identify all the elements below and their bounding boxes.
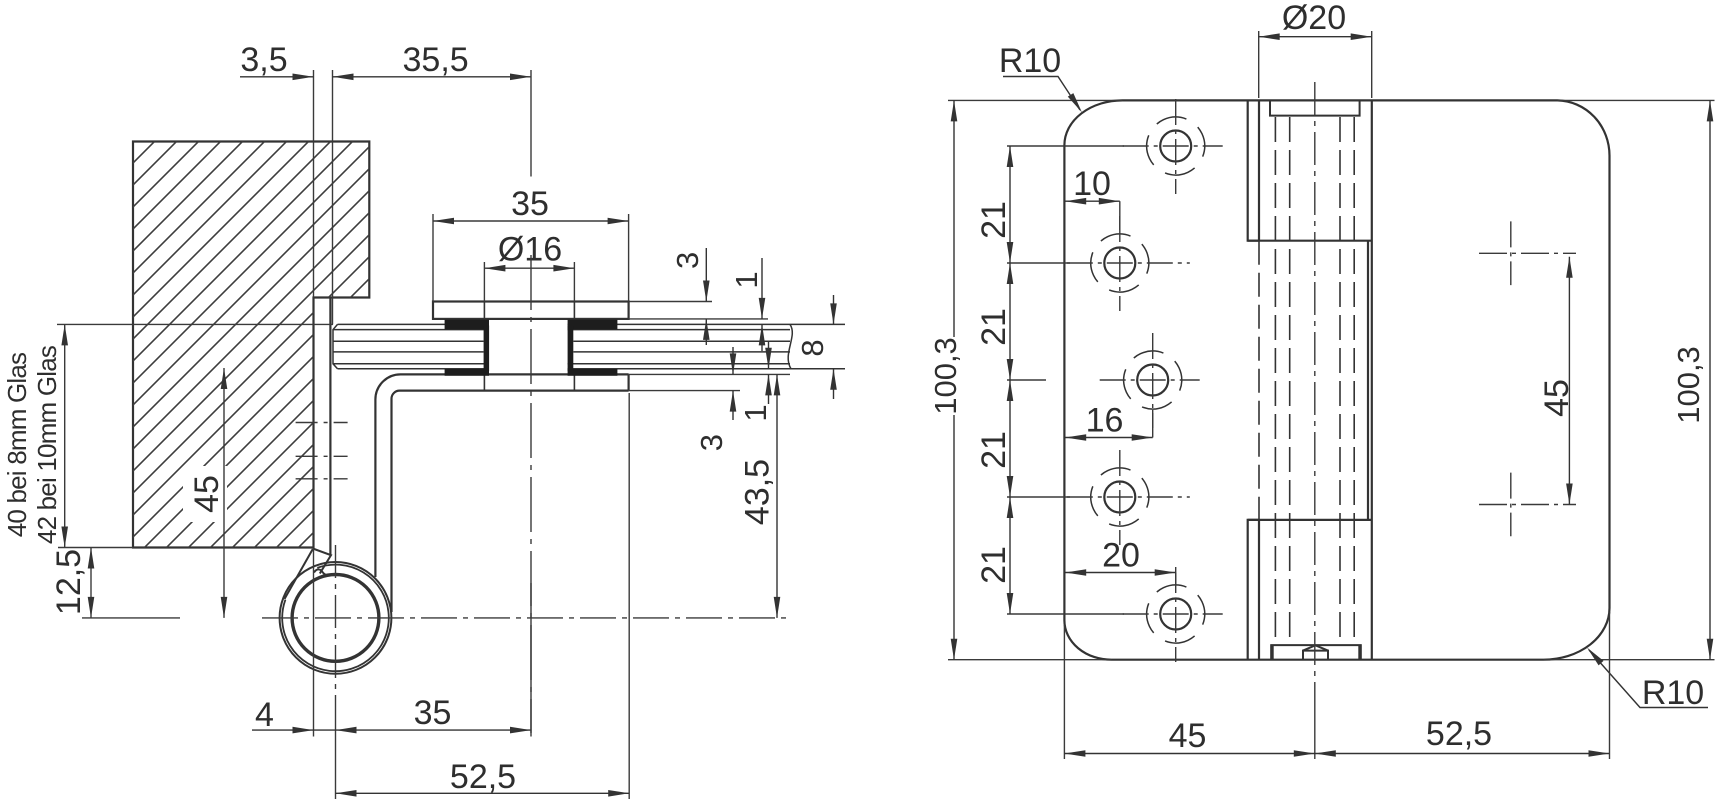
knuckle centre lines xyxy=(262,545,792,700)
dimension 10 xyxy=(1065,200,1120,202)
extension lines bottom left view xyxy=(314,393,630,799)
dimension 52,5 bottom xyxy=(1315,753,1610,755)
21 chain extension lines xyxy=(1007,146,1124,614)
dimension 3,5 xyxy=(240,76,531,78)
svg-text:1: 1 xyxy=(729,271,764,288)
dimension 35,5 xyxy=(333,74,354,81)
svg-text:45: 45 xyxy=(1169,717,1207,755)
svg-text:3: 3 xyxy=(694,434,729,451)
dimension Ø20 xyxy=(1259,31,1372,98)
hinge plate outline right view xyxy=(1064,100,1609,659)
leaf/barrel separation slots xyxy=(1248,100,1372,659)
dimension chain 21 x4 xyxy=(1009,146,1011,614)
svg-text:21: 21 xyxy=(975,308,1013,346)
pin hidden lines xyxy=(1275,117,1354,645)
hole edges top plate xyxy=(483,302,485,319)
dimension 45 right view xyxy=(1568,257,1570,505)
svg-text:45: 45 xyxy=(188,475,226,513)
glass panel lines xyxy=(333,324,845,368)
dimension 1 bottom xyxy=(768,341,770,369)
pin top xyxy=(1270,100,1360,115)
dimension 12,5 xyxy=(90,548,92,618)
svg-text:21: 21 xyxy=(975,431,1013,469)
svg-text:R10: R10 xyxy=(999,42,1061,80)
screw hole 2 xyxy=(1067,216,1190,311)
dimension 3 bottom xyxy=(732,347,734,374)
svg-text:12,5: 12,5 xyxy=(50,549,88,615)
svg-text:42 bei 10mm Glas: 42 bei 10mm Glas xyxy=(32,345,62,544)
barrel hidden edge xyxy=(1258,241,1260,520)
svg-text:100,3: 100,3 xyxy=(1671,346,1706,424)
thin extensions of plate edges xyxy=(948,100,1715,659)
svg-text:4: 4 xyxy=(255,696,274,734)
dimension 4 xyxy=(252,729,336,731)
dimension 43,5 xyxy=(776,374,778,618)
dimension 1 top xyxy=(761,258,763,319)
dimension 8 xyxy=(833,295,835,324)
dimension 100,3 right xyxy=(1709,100,1711,659)
svg-text:20: 20 xyxy=(1102,537,1140,575)
dimension 52,5 left view xyxy=(336,792,630,794)
screw hole 5 xyxy=(1123,567,1223,662)
white box behind 45 text xyxy=(183,466,227,522)
hole edges lower plate xyxy=(483,374,485,390)
gaskets xyxy=(445,320,618,376)
extension line glass face xyxy=(332,70,334,324)
screw hole 1 xyxy=(1123,99,1223,194)
dimension 20 xyxy=(1065,572,1176,574)
glass break line xyxy=(788,324,792,368)
top clamp plate xyxy=(433,302,629,319)
svg-text:16: 16 xyxy=(1086,402,1124,440)
pin bore xyxy=(292,575,379,662)
svg-text:52,5: 52,5 xyxy=(450,758,516,796)
centre extension left xyxy=(82,617,180,619)
screw centre marks xyxy=(296,423,348,479)
glass top extension xyxy=(57,323,333,325)
svg-text:45: 45 xyxy=(1538,379,1576,417)
svg-text:100,3: 100,3 xyxy=(928,337,963,415)
bottom dims right view extensions xyxy=(1064,612,1609,759)
svg-text:52,5: 52,5 xyxy=(1426,715,1492,753)
svg-text:3: 3 xyxy=(670,252,705,269)
screw hole 3 xyxy=(1100,333,1200,428)
right side extension lines xyxy=(629,302,790,391)
dimension 40/42 xyxy=(64,324,66,547)
frame section (hatched) xyxy=(133,142,369,548)
dimension 45 left view xyxy=(223,368,225,618)
centre mark upper right leaf xyxy=(1479,221,1576,285)
svg-text:10: 10 xyxy=(1073,165,1111,203)
svg-text:Ø20: Ø20 xyxy=(1282,0,1346,37)
svg-text:43,5: 43,5 xyxy=(739,459,777,525)
pin bottom xyxy=(1271,645,1360,660)
dimension 35 bottom xyxy=(336,729,532,731)
screw hole 4 xyxy=(1067,450,1190,545)
svg-text:Ø16: Ø16 xyxy=(498,231,562,269)
svg-text:21: 21 xyxy=(975,546,1013,584)
svg-text:1: 1 xyxy=(738,404,773,421)
svg-text:R10: R10 xyxy=(1642,674,1704,712)
centre mark lower right leaf xyxy=(1479,473,1576,537)
dimension 16 xyxy=(1065,437,1153,439)
clamp hole centre line xyxy=(530,255,532,733)
lower clamp plate / door leaf xyxy=(375,374,628,612)
extension line frame face xyxy=(313,70,315,298)
dimension 35 clamp xyxy=(433,214,629,302)
dimension 3 top xyxy=(705,248,707,302)
svg-text:3,5: 3,5 xyxy=(240,41,287,79)
hinge leaf at frame xyxy=(329,298,331,555)
knuckle ring xyxy=(282,565,389,672)
leaf tip wedge xyxy=(285,549,332,600)
svg-text:21: 21 xyxy=(975,201,1013,239)
extension line hole centre top xyxy=(530,70,532,177)
frame bottom extension xyxy=(58,547,133,549)
dimension Ø16 xyxy=(484,262,574,302)
svg-text:8: 8 xyxy=(795,339,830,356)
dimension 100,3 left xyxy=(953,100,955,337)
svg-text:35,5: 35,5 xyxy=(403,41,469,79)
knuckle outer xyxy=(280,562,392,674)
svg-text:35: 35 xyxy=(511,185,549,223)
dimension 45 bottom xyxy=(1064,753,1314,755)
svg-text:40 bei 8mm Glas: 40 bei 8mm Glas xyxy=(2,352,32,537)
svg-text:35: 35 xyxy=(414,694,452,732)
pin centre line xyxy=(1314,82,1316,697)
